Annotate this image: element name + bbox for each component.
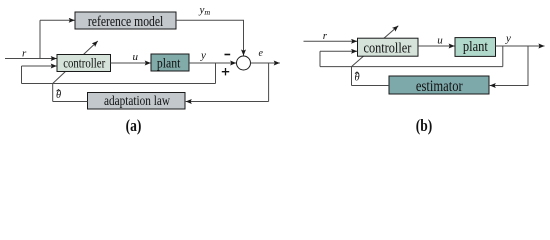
wire feedback left vertical (21, 66, 23, 84)
svg-text:ym: ym (199, 4, 211, 17)
node y label (b) (505, 33, 511, 45)
block plant (a) (151, 54, 189, 71)
svg-text:θ: θ (355, 73, 360, 84)
node minus sign (225, 54, 231, 56)
svg-text:y: y (505, 33, 511, 45)
node theta-hat label (b) (355, 72, 360, 84)
svg-text:(a): (a) (126, 116, 142, 135)
wire e output (251, 62, 280, 64)
node ym label (199, 4, 211, 17)
wire into adaptation law (186, 101, 269, 103)
svg-text:estimator: estimator (416, 78, 463, 95)
wire feedback left vertical (b) (319, 51, 321, 66)
node theta-hat label (a) (56, 90, 61, 101)
node y label (a) (200, 50, 206, 62)
wire theta-hat diagonal through controller (b) (352, 26, 399, 67)
wire feedback horizontal (b) (320, 66, 503, 68)
wire u controller to plant (b) (418, 45, 455, 47)
wire feedback bottom horizontal (22, 83, 216, 85)
wire theta-hat from estimator (352, 85, 390, 87)
node u label (b) (437, 34, 443, 46)
wire u controller to plant (111, 62, 151, 64)
node e label (259, 48, 264, 59)
wire branch from r up (39, 20, 41, 59)
wire y feedback branch 1 down (502, 46, 504, 67)
wire e branch down (268, 63, 270, 102)
caption (b) (416, 116, 433, 135)
block adaptation law (88, 93, 186, 110)
wire y feedback branch 2 down to estimator (490, 46, 528, 86)
svg-text:plant: plant (463, 39, 488, 55)
wire theta-hat vertical (52, 84, 54, 102)
wire y plant to summing junction (189, 62, 236, 64)
wire y feedback branch down (215, 63, 217, 84)
wire theta-hat vertical (b) (351, 67, 353, 86)
block plant (b) (455, 38, 496, 57)
block controller (b) (358, 38, 419, 56)
svg-text:r: r (323, 30, 328, 42)
wire theta-hat diagonal through controller (53, 41, 98, 84)
svg-text:reference model: reference model (88, 14, 163, 30)
wire theta-hat horizontal from adaptation law (53, 101, 88, 103)
wire into reference model (40, 19, 75, 21)
svg-text:θ: θ (56, 90, 61, 101)
block reference model (75, 12, 176, 30)
svg-text:e: e (259, 48, 264, 59)
svg-text:controller: controller (364, 40, 412, 56)
summing junction (237, 56, 251, 70)
block controller (a) (57, 55, 111, 72)
svg-text:(b): (b) (416, 116, 433, 135)
node r label (a) (22, 47, 27, 59)
svg-text:controller: controller (63, 56, 105, 71)
svg-text:adaptation law: adaptation law (104, 93, 170, 108)
wire r input to controller (b) (304, 40, 358, 42)
node plus sign (222, 68, 229, 75)
wire r input to controller (5, 58, 57, 60)
wire y output (b) (496, 45, 545, 47)
node r label (b) (323, 30, 328, 42)
node u label (a) (133, 51, 139, 63)
wire feedback into controller (b) (320, 50, 357, 52)
wire feedback into controller (22, 65, 57, 67)
svg-text:plant: plant (157, 56, 181, 71)
svg-text:y: y (200, 50, 206, 62)
svg-text:u: u (133, 51, 139, 63)
svg-text:u: u (437, 34, 443, 46)
svg-text:r: r (22, 47, 27, 59)
caption (a) (126, 116, 142, 135)
block estimator (389, 76, 489, 95)
wire ym from reference model to summing junction (176, 20, 244, 55)
